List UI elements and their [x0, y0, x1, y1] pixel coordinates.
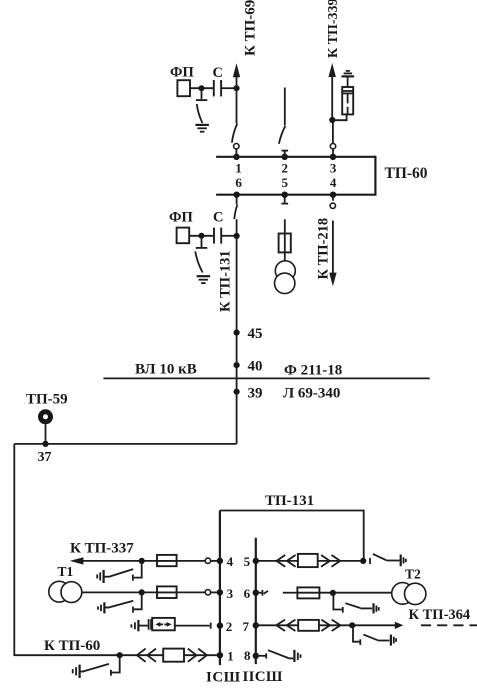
- node 45: [234, 330, 240, 336]
- svg-text:40: 40: [248, 359, 263, 375]
- wire row8 stub: [256, 655, 266, 657]
- earthing switch row3 contact bar: [132, 607, 134, 613]
- disconnector QS4 contact circle: [330, 203, 335, 208]
- cable chevrons row1 left: [137, 649, 156, 662]
- node row6 tap: [330, 590, 336, 596]
- svg-text:4: 4: [330, 175, 337, 190]
- node FP2 tap: [199, 233, 205, 239]
- node row4 tap: [139, 558, 145, 564]
- wire circle to bus: [235, 149, 237, 157]
- node row5 junction: [360, 558, 366, 564]
- cable box row7: [298, 620, 319, 631]
- svg-text:3: 3: [227, 586, 234, 601]
- node row3 tap: [139, 589, 145, 595]
- disconnector row8 contact bar: [265, 653, 267, 658]
- earthing switch under FP2 blade: [195, 251, 202, 272]
- arrow row7 to TP-364: [395, 622, 404, 629]
- disconnector row4 contact circle: [205, 558, 210, 563]
- wire through fuse row3: [157, 591, 177, 593]
- node 37: [42, 441, 48, 447]
- earthing switch row7 drop: [353, 625, 360, 641]
- node row7 junction: [349, 622, 355, 628]
- svg-text:Ф 211-18: Ф 211-18: [284, 363, 342, 379]
- svg-text:6: 6: [244, 586, 251, 601]
- node row1 tap: [117, 652, 123, 658]
- earthing switch under FP1 contact bar: [196, 99, 208, 101]
- svg-text:ФП: ФП: [169, 210, 193, 226]
- node bus 4: [330, 192, 336, 198]
- node bus1 row4: [217, 558, 223, 564]
- wire through fuse row4: [157, 560, 177, 562]
- wire row7 left segment: [256, 624, 298, 626]
- busbar TP-60 bottom line: [216, 194, 375, 196]
- svg-text:К ТП-218: К ТП-218: [316, 218, 332, 280]
- wire row5 right segment: [318, 560, 364, 562]
- svg-text:IIСШ: IIСШ: [243, 669, 283, 685]
- wire bus 4 stub: [332, 195, 334, 201]
- wire row6 to T2: [297, 592, 391, 594]
- disconnector QS1 blade: [232, 124, 237, 143]
- earthing switch row7 blade: [363, 635, 377, 641]
- wire C1 to feeder line: [222, 87, 237, 89]
- node 39: [234, 389, 240, 395]
- svg-text:2: 2: [282, 161, 289, 176]
- node arrester tap: [329, 117, 335, 123]
- transformer T2 circles: [392, 583, 426, 605]
- wire row7 right segment: [319, 624, 396, 626]
- earthing switch under FP1 stub: [201, 88, 203, 99]
- disconnector QS5 closed contact bar: [281, 203, 288, 205]
- wire overhead line VL 10 kV: [103, 377, 429, 379]
- node 40: [234, 362, 240, 368]
- wire row2 to bus: [175, 625, 210, 627]
- disconnector QS2 closed contact bar: [282, 150, 289, 152]
- disconnector row2 contact bar: [210, 623, 212, 629]
- svg-text:К ТП-60: К ТП-60: [44, 638, 100, 654]
- wire arrester to ground: [347, 77, 349, 87]
- svg-text:1: 1: [235, 161, 242, 176]
- wire feeder 3 up with arrow to TP-339: [329, 63, 336, 120]
- node main junction: [234, 233, 240, 239]
- node bus2 row7: [253, 622, 259, 628]
- svg-text:К ТП-337: К ТП-337: [70, 541, 134, 557]
- filter FP1 box: [177, 80, 190, 96]
- node bus2 row8: [253, 653, 259, 659]
- busbar TP-60 right edge: [374, 156, 376, 196]
- svg-text:37: 37: [38, 450, 52, 465]
- wire tap down to disconnector QS3: [332, 121, 334, 144]
- svg-text:ТП-60: ТП-60: [385, 165, 428, 182]
- node bus 1: [233, 154, 239, 160]
- disconnector QS3 contact circle: [330, 144, 335, 149]
- cable chevrons row5 left: [277, 555, 296, 567]
- busbar 2SSh vertical: [255, 538, 257, 664]
- earthing switch row3 drop: [134, 592, 142, 609]
- wire bus 6 stub: [236, 195, 238, 205]
- svg-text:К ТП-364: К ТП-364: [409, 607, 471, 623]
- fuse row6 box: [297, 587, 319, 598]
- node bus2 row5: [253, 558, 259, 564]
- svg-text:IСШ: IСШ: [206, 670, 241, 686]
- disconnector row6 blade tick: [264, 591, 268, 594]
- capacitor C2 plates: [214, 228, 221, 244]
- earthing switch row3 blade: [107, 601, 133, 608]
- svg-text:8: 8: [244, 648, 251, 663]
- wire C2 to main line: [222, 235, 237, 237]
- wire circle to bus row4: [211, 560, 220, 562]
- earthing switch row4 stub: [104, 576, 109, 578]
- earthing switch row4 drop: [134, 561, 142, 578]
- svg-text:39: 39: [248, 385, 263, 401]
- cable termination row2 double bars: [149, 619, 152, 630]
- wire TP-131 top link: [220, 511, 364, 561]
- earthing switch under FP2 stub: [201, 236, 203, 247]
- ground row1: [73, 665, 80, 678]
- wire circle to bus row3: [211, 591, 220, 593]
- wire row7 to ground: [378, 640, 390, 642]
- ground under FP2: [197, 276, 211, 283]
- wire junction to disconnector: [236, 88, 238, 123]
- wire row6 mid: [283, 592, 298, 594]
- transformer T (station) circles: [275, 261, 296, 294]
- disconnector row3 contact circle: [205, 590, 210, 595]
- node FP1 tap: [199, 85, 205, 91]
- cable termination row2 box: [152, 618, 175, 630]
- earthing switch row1 drop: [111, 655, 120, 672]
- wire bus 5 stub: [284, 195, 286, 203]
- wire row3: [82, 591, 205, 593]
- svg-text:ФП: ФП: [170, 65, 194, 81]
- capacitor C1 plates: [214, 80, 221, 96]
- earthing switch row8 blade: [268, 650, 289, 658]
- earthing switch under FP2 contact bar: [196, 247, 208, 249]
- svg-text:6: 6: [235, 175, 242, 190]
- earthing switch row6 contact bar: [342, 607, 344, 613]
- svg-text:С: С: [213, 210, 223, 226]
- earthing switch row4 blade: [109, 569, 134, 577]
- svg-text:Т2: Т2: [405, 567, 421, 582]
- earthing switch row1 contact bar: [110, 670, 112, 676]
- earthing switch row1 blade: [82, 664, 109, 672]
- svg-text:1: 1: [227, 649, 234, 664]
- disconnector QS1 contact circle: [234, 144, 239, 149]
- cable chevrons row7 left: [276, 620, 295, 631]
- earthing switch row4 contact bar: [132, 575, 134, 581]
- substation TP-59 symbol: [41, 412, 51, 422]
- ground row5: [401, 555, 406, 567]
- wire row6 to ground: [360, 607, 372, 609]
- node junction C1 top: [233, 85, 239, 91]
- disconnector QS6 blade: [234, 205, 237, 220]
- ground row8: [294, 650, 300, 662]
- wire blade to FP2 junction: [236, 219, 238, 236]
- wire feeder down with arrow to TP-218: [329, 221, 336, 287]
- earthing switch row1 stub: [81, 671, 84, 673]
- node bus 6: [233, 192, 239, 198]
- ground row7: [391, 635, 396, 646]
- busbar 1SSh vertical: [219, 511, 221, 666]
- svg-text:7: 7: [243, 619, 250, 634]
- filter FP2 box: [177, 228, 190, 244]
- wire feeder 1 up with arrow to TP-69: [233, 63, 240, 88]
- earthing switch row6 blade: [345, 603, 360, 608]
- cable chevrons row7 right: [321, 620, 340, 631]
- svg-text:5: 5: [244, 554, 251, 569]
- cable box row5: [298, 554, 318, 567]
- earthing switch row3 stub: [104, 606, 108, 608]
- wire QS5 to fuse: [284, 219, 286, 252]
- wire QS2 to bus: [284, 151, 286, 157]
- node bus 3: [330, 154, 336, 160]
- wire row5 to ground: [386, 560, 399, 562]
- node bus 2: [282, 154, 288, 160]
- svg-text:45: 45: [248, 326, 263, 342]
- svg-text:Т1: Т1: [58, 564, 74, 579]
- wire fuse to transformer: [284, 252, 286, 261]
- svg-text:С: С: [213, 65, 223, 81]
- wire FP2 to junction: [189, 235, 213, 237]
- node bus1 row2: [217, 622, 223, 628]
- cable chevrons row1 right: [188, 649, 207, 662]
- wire row6 stub: [256, 592, 262, 594]
- fuse row3 box: [157, 586, 177, 598]
- earthing switch row6 drop: [333, 593, 343, 610]
- node bus2 row6: [253, 590, 259, 596]
- ground row3: [98, 602, 104, 613]
- svg-text:К ТП-69: К ТП-69: [243, 0, 259, 56]
- earthing switch under FP1 blade: [197, 104, 203, 123]
- wire TP-59 drop: [45, 424, 47, 444]
- node bus 5: [282, 192, 288, 198]
- cable termination row2 arrows: [155, 622, 171, 627]
- arrester FV box: [342, 87, 353, 114]
- wire row2 ground link: [139, 625, 147, 627]
- wire row5 left segment: [256, 560, 298, 562]
- svg-text:ТП-59: ТП-59: [26, 392, 68, 408]
- wire row8 to ground: [289, 657, 293, 659]
- svg-text:Л 69-340: Л 69-340: [283, 386, 340, 402]
- svg-text:5: 5: [282, 175, 289, 190]
- wire feeder 2 stub: [284, 88, 286, 126]
- svg-text:К ТП-339: К ТП-339: [326, 0, 341, 58]
- fuse FU1 box: [279, 234, 291, 253]
- wire circle to bus: [332, 149, 334, 157]
- earthing switch row5 contact bar: [369, 558, 371, 564]
- transformer T1 circles: [49, 581, 82, 602]
- wire tap to arrester: [332, 115, 346, 121]
- ground row6: [374, 603, 379, 613]
- cable box row1: [163, 649, 184, 662]
- svg-text:2: 2: [226, 619, 233, 634]
- ground row2: [131, 620, 138, 631]
- arrester FV internals: [342, 91, 353, 114]
- wire FP1 to junction: [190, 87, 213, 89]
- cable chevrons row5 right: [321, 555, 340, 567]
- disconnector QS2 blade: [279, 126, 285, 144]
- svg-text:3: 3: [330, 161, 337, 176]
- ground row4: [97, 570, 103, 583]
- wire row1 right: [184, 654, 220, 656]
- fuse row4 box: [157, 555, 177, 566]
- svg-text:ТП-131: ТП-131: [265, 493, 314, 509]
- wire main feeder vertical: [236, 236, 238, 444]
- ground above arrester: [341, 71, 354, 77]
- earthing switch row5 blade: [373, 554, 387, 560]
- wire left feeder vertical: [13, 444, 15, 655]
- earthing switch row7 contact bar: [359, 639, 361, 645]
- wire row4 with arrow to TP-337: [70, 557, 205, 564]
- svg-text:4: 4: [227, 554, 234, 569]
- svg-text:К ТП-131: К ТП-131: [218, 250, 234, 312]
- node bus1 row1: [217, 652, 223, 658]
- wire row7 dashed continuation: [421, 624, 477, 626]
- node bus1 row3: [217, 589, 223, 595]
- busbar TP-60 top line: [216, 156, 375, 158]
- wire horizontal to TP-59 branch: [14, 443, 236, 445]
- disconnector row6 contact bar: [261, 590, 263, 596]
- wire row1 left: [14, 654, 164, 656]
- svg-text:ВЛ 10 кВ: ВЛ 10 кВ: [135, 362, 197, 378]
- ground under FP1: [195, 125, 209, 132]
